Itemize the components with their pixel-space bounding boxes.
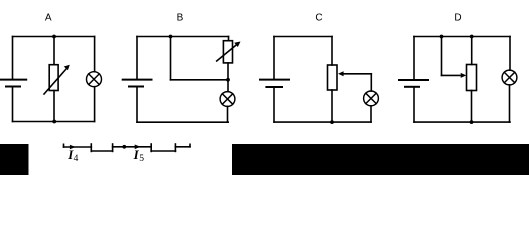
wire: circuit D bottom xyxy=(414,121,510,123)
variable resistor (rheostat), circuit A: body xyxy=(49,65,58,91)
label D xyxy=(454,13,461,24)
wire: circuit C left (lower) xyxy=(273,88,275,122)
current arrow I4 xyxy=(70,145,76,150)
wire: circuit C left (upper) xyxy=(273,37,275,79)
black redaction bar left xyxy=(0,144,29,175)
wire: circuit B right mid xyxy=(227,63,229,92)
lamp, circuit B xyxy=(220,92,235,107)
battery cell, circuit A: short plate xyxy=(6,86,20,88)
battery cell, circuit C: short plate xyxy=(266,86,282,88)
wire: circuit D top xyxy=(414,36,510,38)
node: circuit D top junction 1 xyxy=(440,35,444,39)
wire: circuit D left (lower) xyxy=(413,88,415,122)
wire: bottom figure lower segment 2 xyxy=(151,150,175,152)
battery cell, circuit C: long plate xyxy=(260,79,289,81)
wire: bottom figure start tick xyxy=(63,144,65,147)
svg-text:A: A xyxy=(45,13,52,24)
node: circuit B top junction xyxy=(169,35,173,39)
wire: circuit B inner vertical xyxy=(170,37,172,80)
node: circuit C bottom junction xyxy=(330,120,334,124)
lamp, circuit A xyxy=(87,72,102,87)
node: circuit B mid junction xyxy=(226,78,230,82)
svg-text:C: C xyxy=(315,13,322,24)
variable resistor, circuit B: diagonal arrow xyxy=(217,42,241,62)
svg-text:4: 4 xyxy=(74,154,79,164)
wire: bottom figure upper segment 3 xyxy=(175,146,190,148)
wire: bottom figure bar 1 xyxy=(90,144,92,151)
label A xyxy=(45,13,52,24)
variable resistor (rheostat), circuit B: body xyxy=(223,41,232,63)
wire: circuit A right lower xyxy=(94,87,96,122)
battery cell, circuit D: short plate xyxy=(405,86,419,88)
wire: circuit B top xyxy=(137,36,229,38)
wire: circuit C pot lower xyxy=(331,90,333,122)
potentiometer, circuit C: body xyxy=(328,65,338,90)
potentiometer, circuit D: body xyxy=(467,65,477,91)
svg-text:5: 5 xyxy=(139,154,144,164)
wire: circuit A left (lower) xyxy=(12,87,14,121)
wire: circuit C bottom xyxy=(274,121,371,123)
node: circuit A bottom junction xyxy=(52,120,56,124)
wire: circuit A left (upper) xyxy=(12,37,14,79)
node: circuit D bottom junction xyxy=(470,120,474,124)
wire: circuit D pot upper xyxy=(471,37,473,65)
wire: bottom figure end tick xyxy=(189,144,191,147)
wire: bottom figure bar 4 xyxy=(174,144,176,151)
wire: bottom figure lower segment 1 xyxy=(91,150,112,152)
wire: circuit A bottom xyxy=(13,121,95,123)
variable resistor, circuit A: diagonal arrow xyxy=(44,65,70,94)
lamp, circuit C xyxy=(364,91,379,106)
battery cell, circuit A: long plate xyxy=(0,79,26,81)
wire: circuit C top xyxy=(274,36,332,38)
node: bottom figure junction dot xyxy=(122,145,126,149)
black redaction bar right xyxy=(232,144,529,175)
potentiometer, circuit D: wiper arrow xyxy=(442,73,467,78)
wire: circuit B right stub xyxy=(228,37,230,41)
wire: circuit D wiper vertical xyxy=(441,37,443,76)
wire: bottom figure upper segment 1 xyxy=(64,146,92,148)
wire: circuit B left (upper) xyxy=(136,37,138,79)
battery cell, circuit B: long plate xyxy=(123,79,152,81)
battery cell, circuit D: long plate xyxy=(399,79,428,81)
wire: bottom figure bar 3 xyxy=(150,144,152,151)
battery cell, circuit B: short plate xyxy=(129,86,143,88)
wire: bottom figure upper segment 2 xyxy=(113,146,152,148)
wire: circuit A middle branch upper xyxy=(53,37,55,65)
wire: circuit B middle horizontal xyxy=(171,79,229,81)
wire: circuit C pot upper xyxy=(331,37,333,66)
wire: circuit A top xyxy=(13,36,95,38)
node: circuit D top junction 2 xyxy=(470,35,474,39)
wire: circuit B right lower xyxy=(227,106,229,122)
potentiometer, circuit C: wiper arrow xyxy=(338,71,371,76)
svg-text:B: B xyxy=(177,13,184,24)
wire: circuit D left (upper) xyxy=(413,37,415,80)
wire: circuit B left (lower) xyxy=(136,87,138,122)
wire: circuit C wiper down xyxy=(370,74,372,91)
wire: circuit D right upper xyxy=(509,37,511,71)
wire: bottom figure bar 2 xyxy=(112,144,114,151)
wire: circuit A middle branch lower xyxy=(53,91,55,122)
wire: circuit C lamp down xyxy=(370,106,372,122)
wire: circuit D right lower xyxy=(509,85,511,122)
wire: circuit B bottom xyxy=(137,121,228,123)
current arrow I5 xyxy=(135,145,141,150)
label I5 xyxy=(133,147,145,164)
node: circuit A top junction xyxy=(52,35,56,39)
wire: circuit A right upper xyxy=(94,37,96,72)
wire: circuit D pot lower xyxy=(471,91,473,123)
label B xyxy=(177,13,184,24)
label C xyxy=(315,13,322,24)
label I4 xyxy=(67,147,78,164)
lamp, circuit D xyxy=(502,70,517,85)
svg-text:D: D xyxy=(454,13,461,24)
